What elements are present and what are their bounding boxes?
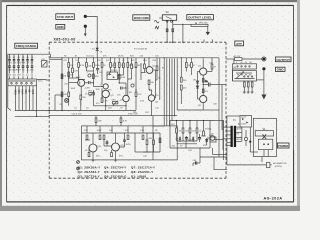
capacitor values row1 xyxy=(8,63,33,65)
rectifier diodes box xyxy=(240,116,252,128)
svg-text:5M6: 5M6 xyxy=(31,90,34,95)
chassis ground triangle at VR1 xyxy=(206,32,210,36)
emitter resistor Q7 xyxy=(202,79,204,83)
switch S1 xyxy=(162,15,176,20)
svg-text:AC 100V: AC 100V xyxy=(238,122,247,125)
label OUTPUT xyxy=(275,57,291,62)
resistor chain x86 xyxy=(86,58,94,71)
svg-text:SYNC INPUT: SYNC INPUT xyxy=(57,15,73,19)
svg-text:S1: S1 xyxy=(166,10,170,14)
svg-text:56K: 56K xyxy=(17,90,20,95)
supply rail wire xyxy=(8,53,51,55)
wire branch to board xyxy=(182,24,184,42)
label POWER xyxy=(277,143,289,148)
transistor Q6 xyxy=(148,95,158,104)
switch S4 upper xyxy=(255,131,273,136)
gnd jack J2 xyxy=(84,25,87,28)
transistor Q10 sync xyxy=(112,143,126,151)
triangle symbol xyxy=(155,26,159,29)
transistor Q4 xyxy=(120,95,129,101)
regulator values xyxy=(171,124,212,132)
diode D10 xyxy=(192,137,194,143)
svg-text:GND: GND xyxy=(277,68,284,72)
svg-text:C5: C5 xyxy=(26,57,28,59)
svg-text:47/16: 47/16 xyxy=(201,136,207,138)
svg-text:10/16: 10/16 xyxy=(126,144,132,146)
series resistor R64 xyxy=(235,58,243,61)
svg-text:560: 560 xyxy=(24,90,27,95)
resistor chain x131 xyxy=(128,58,138,79)
small resistors on S1 wires xyxy=(166,29,168,32)
capacitor values row3 xyxy=(8,75,33,77)
capacitor C45 xyxy=(193,157,201,166)
coupling caps mid xyxy=(89,81,123,90)
sync box values xyxy=(84,130,158,132)
capacitors C7-C12 xyxy=(8,66,33,67)
svg-text:c: c xyxy=(18,68,19,70)
wire S1 to VR1 xyxy=(173,23,191,25)
transistor Q5 xyxy=(146,65,156,73)
svg-text:Q3: 2SC734-Y: Q3: 2SC734-Y xyxy=(78,174,100,178)
chassis arrow below gnd jack xyxy=(261,95,266,100)
svg-text:Q8: 2SA561-Y: Q8: 2SA561-Y xyxy=(131,170,153,174)
diode D1 on sync line xyxy=(92,42,103,58)
resistor hanging above sync box x121 xyxy=(120,116,127,126)
sine symbol xyxy=(154,20,159,23)
transistor Q7 xyxy=(198,65,207,75)
svg-text:Q4: 2SC734-Y: Q4: 2SC734-Y xyxy=(104,165,126,169)
bus wire bottom of range caps xyxy=(15,110,136,112)
svg-text:AG-202A: AG-202A xyxy=(264,197,283,201)
scattered values oscillator xyxy=(59,60,165,114)
connector label SYNC INPUT xyxy=(56,14,75,20)
svg-text:WAVE FORM: WAVE FORM xyxy=(134,16,149,20)
transistor Q1 fet xyxy=(100,84,108,89)
svg-text:0: 0 xyxy=(236,62,237,64)
second row resistors xyxy=(61,72,150,103)
label WAVE FORM xyxy=(133,15,150,20)
svg-text:Q7: 2SC1714-Y: Q7: 2SC1714-Y xyxy=(131,165,155,169)
ground symbols attenuator xyxy=(243,92,254,93)
wires S1 to board xyxy=(166,20,168,42)
sync box inner values xyxy=(85,138,153,157)
svg-text:POWER: POWER xyxy=(278,144,289,148)
transistor Q3 xyxy=(102,90,114,97)
trimmer VR2 xyxy=(88,90,94,96)
wire mains bottom xyxy=(214,157,227,170)
svg-text:(62): (62) xyxy=(96,155,100,157)
svg-text:Q2: 2SA564-Y: Q2: 2SA564-Y xyxy=(78,170,100,174)
switch S4 cross contacts xyxy=(263,134,267,139)
resistor chain x114 xyxy=(114,58,116,72)
resistor hanging above sync box x96 xyxy=(95,116,102,126)
switch S4 lower xyxy=(258,139,272,149)
wire stubs crossing pcb top edge xyxy=(203,40,205,43)
transistor Q9 sync xyxy=(89,144,102,152)
svg-text:8.2K: 8.2K xyxy=(80,65,85,67)
svg-text:Q6: 2SC458-G: Q6: 2SC458-G xyxy=(104,174,127,178)
svg-text:S2-1: S2-1 xyxy=(38,81,43,83)
output stage values xyxy=(193,63,218,106)
diode D9 xyxy=(176,137,182,143)
leads below resistors xyxy=(69,67,136,95)
regulator transistor Q11 xyxy=(207,133,215,140)
svg-text:Q5: 2SA564-Y: Q5: 2SA564-Y xyxy=(104,170,126,174)
svg-text:470/16: 470/16 xyxy=(205,129,212,131)
svg-text:OUTPUT: OUTPUT xyxy=(276,58,290,62)
svg-text:(DC9V): (DC9V) xyxy=(275,166,282,168)
resistor chain x123 xyxy=(119,58,124,75)
sync box internals xyxy=(82,126,161,160)
capacitor x97 xyxy=(96,58,103,74)
svg-text:SYNC 22K: SYNC 22K xyxy=(128,114,138,116)
svg-text:ATT: ATT xyxy=(236,42,242,46)
svg-text:C20 4.7/25: C20 4.7/25 xyxy=(72,113,83,115)
trimmer VR3 xyxy=(112,100,118,106)
wire S1 to waveform symbols xyxy=(159,17,162,19)
extra junction dots xyxy=(61,77,150,111)
resistor chain x157 xyxy=(156,58,158,80)
potentiometer VR1 xyxy=(191,22,208,26)
svg-text:D2 D3: D2 D3 xyxy=(111,70,118,72)
transformer leads right xyxy=(236,127,242,141)
svg-text:(8.2V): (8.2V) xyxy=(118,56,124,58)
svg-text:2.2M: 2.2M xyxy=(85,88,90,90)
svg-text:4.7K: 4.7K xyxy=(123,121,128,123)
svg-text:TO S1 A-B S2: TO S1 A-B S2 xyxy=(134,48,148,51)
wire bus bottom xyxy=(49,115,177,117)
wire left edge of cap bank xyxy=(7,54,9,108)
svg-text:C1: C1 xyxy=(8,57,10,59)
output stage resistors xyxy=(180,63,213,91)
svg-text:-30: -30 xyxy=(249,62,252,64)
gnd jack J4 xyxy=(262,67,265,70)
svg-text:4.7K: 4.7K xyxy=(137,94,142,96)
svg-text:C61: C61 xyxy=(209,135,212,137)
svg-text:AC ADAPTOR: AC ADAPTOR xyxy=(273,162,287,165)
ground symbols below sync box xyxy=(92,160,118,162)
transistor Q8 xyxy=(198,95,207,106)
wires Q5 Q6 xyxy=(149,58,156,116)
chassis arrow under gnd jack xyxy=(84,34,87,37)
svg-text:-10: -10 xyxy=(240,62,243,64)
sync input jack J1 xyxy=(84,15,87,18)
svg-text:e: e xyxy=(27,68,28,70)
capacitor C42 xyxy=(198,134,207,142)
label ATT xyxy=(235,41,244,46)
wafer S2-2 contact marks xyxy=(9,68,33,70)
frequency range capacitor bank xyxy=(10,54,33,59)
wire mains left of transformer xyxy=(215,120,227,160)
label GND output xyxy=(275,67,285,71)
svg-text:b: b xyxy=(14,68,15,70)
svg-text:C6: C6 xyxy=(31,57,33,59)
capacitors C1-C6 xyxy=(8,59,33,60)
lamp PL1 xyxy=(65,99,69,103)
wire S2 to osc xyxy=(37,79,49,81)
output jack J3 xyxy=(263,58,266,61)
svg-text:GND: GND xyxy=(57,25,64,29)
svg-text:OUTPUT LEVEL: OUTPUT LEVEL xyxy=(188,16,212,20)
svg-text:D1: HD68: D1: HD68 xyxy=(131,174,146,178)
attenuator resistors xyxy=(244,82,254,87)
svg-text:AC9V: AC9V xyxy=(237,138,243,141)
connector label GND xyxy=(56,24,65,29)
svg-text:2.2K: 2.2K xyxy=(140,100,145,102)
bias diodes xyxy=(196,78,198,93)
leads mid xyxy=(10,61,33,66)
svg-text:100P: 100P xyxy=(71,88,76,90)
sync feedback buses xyxy=(160,58,177,126)
leads to values xyxy=(10,67,33,73)
output wire to attenuator xyxy=(226,58,235,60)
capacitor values row2 xyxy=(8,69,34,71)
resistor values on S2 wires xyxy=(14,90,34,96)
oscillator vertical chains from rail xyxy=(62,58,136,111)
power unit enclosure xyxy=(253,118,276,156)
fuse wiring xyxy=(244,127,258,152)
svg-text:1.2K: 1.2K xyxy=(133,67,138,69)
regulator mid bus xyxy=(177,143,198,145)
svg-text:X65-001-00: X65-001-00 xyxy=(54,37,76,41)
wire pot to chassis xyxy=(207,26,209,32)
sync box caps xyxy=(106,140,109,146)
svg-text:560K: 560K xyxy=(14,90,17,96)
wires output stage xyxy=(177,58,222,157)
resistor chain x144 xyxy=(144,58,146,73)
label OUTPUT LEVEL xyxy=(187,15,214,20)
zener diode xyxy=(206,138,208,145)
diode pair box xyxy=(107,70,118,79)
svg-text:AC9V: AC9V xyxy=(237,127,243,130)
wires to power unit xyxy=(200,121,227,158)
pcb outline dashed xyxy=(49,42,226,178)
output coupling capacitor xyxy=(203,81,226,87)
attenuator wiper arrow xyxy=(236,73,243,79)
range switch S2 wafer xyxy=(8,76,37,86)
svg-text:C2: C2 xyxy=(13,57,15,59)
emitter resistor Q8 xyxy=(202,89,204,93)
electrolytic C32 xyxy=(131,83,136,88)
svg-text:Q1: 2SK30A-Y: Q1: 2SK30A-Y xyxy=(78,165,101,169)
power transformer T1 xyxy=(231,120,237,147)
wire sync input to board xyxy=(87,16,98,42)
resistor chain x72 xyxy=(72,58,79,78)
svg-text:FREQ RANGE: FREQ RANGE xyxy=(16,44,36,48)
svg-text:C3: C3 xyxy=(17,57,19,59)
svg-text:6.8K: 6.8K xyxy=(121,77,126,79)
svg-text:2.2K: 2.2K xyxy=(140,130,145,132)
svg-text:5.6K: 5.6K xyxy=(21,90,24,95)
wires mid-left cluster xyxy=(55,63,152,111)
svg-text:-20: -20 xyxy=(245,62,248,64)
capacitor designators row xyxy=(8,57,33,59)
noise filter box xyxy=(209,135,216,142)
svg-text:1M: 1M xyxy=(63,76,66,78)
sync amp board box xyxy=(82,126,178,160)
regulator section xyxy=(153,116,215,160)
transformer leads left xyxy=(227,127,231,165)
sync box resistors lower xyxy=(88,140,154,157)
svg-text:2P2: 2P2 xyxy=(17,75,20,77)
resistors on rail top row xyxy=(68,63,137,68)
wires S4 to chassis xyxy=(263,150,265,157)
ground circles left of sync box xyxy=(77,161,80,170)
wire rectifier to board xyxy=(227,115,240,117)
wire gnd jack to ground arrow xyxy=(263,70,265,94)
trimmer capacitor C26 xyxy=(41,59,47,67)
transformer secondary labels xyxy=(237,127,243,140)
resistor values top row xyxy=(70,65,142,67)
wire gnd jack down xyxy=(84,28,86,34)
capacitor C41 xyxy=(185,136,195,142)
electrolytic C31 xyxy=(87,72,91,77)
svg-text:C51 C52: C51 C52 xyxy=(86,56,95,58)
transistor Q2 xyxy=(76,77,90,89)
svg-text:d: d xyxy=(23,68,24,70)
ac adaptor jack xyxy=(227,157,272,168)
svg-text:D4-D7: D4-D7 xyxy=(241,117,246,119)
regulator labels xyxy=(172,145,208,152)
second row values xyxy=(63,74,154,102)
svg-text:AT 470: AT 470 xyxy=(234,55,241,58)
wires S2 to bottom bus xyxy=(16,86,37,117)
svg-text:100K: 100K xyxy=(97,130,102,132)
parts list xyxy=(78,165,156,178)
label FREQ RANGE xyxy=(15,43,38,48)
attenuator switch S3 xyxy=(233,64,257,81)
